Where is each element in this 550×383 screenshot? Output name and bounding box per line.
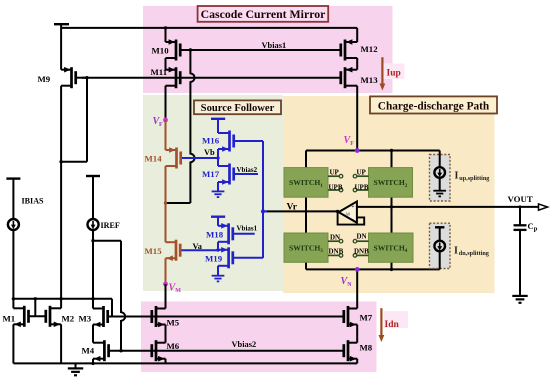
supply T IBIAS (6, 177, 20, 179)
wire M17 gate stub Vbias2 (235, 173, 259, 175)
terminal DN left (328, 240, 339, 242)
svg-text:Vbias2: Vbias2 (237, 166, 258, 174)
switch SWITCH3 (284, 233, 328, 262)
svg-text:DNB: DNB (329, 248, 344, 256)
wire M17 source to ground (217, 182, 219, 191)
wire VN rail (306, 268, 440, 270)
svg-text:VOUT: VOUT (508, 194, 533, 204)
node M4 source at rail (91, 362, 94, 365)
svg-text:Vb: Vb (204, 148, 215, 157)
transistor M19 (218, 247, 233, 268)
svg-text:+: + (352, 204, 355, 210)
wire horizontal to brown spine (166, 202, 191, 204)
wire top rail VDD (61, 27, 357, 29)
title box Source Follower (194, 100, 281, 114)
transistor M15 (166, 240, 181, 261)
svg-text:dn,splitting: dn,splitting (459, 250, 490, 257)
transistor M10 (166, 39, 181, 60)
region: source follower (green) (143, 95, 283, 291)
wire op-amp positive input to VOUT rail (357, 206, 539, 208)
svg-text:M14: M14 (145, 154, 163, 164)
current arrow Iup (381, 57, 383, 84)
terminal DNB right (357, 254, 369, 256)
wire M6 source to ground rail (165, 359, 167, 364)
terminal UPB left (328, 189, 339, 191)
svg-text:UPB: UPB (329, 183, 343, 191)
svg-text:M8: M8 (360, 343, 373, 353)
switch SWITCH1 (284, 168, 328, 198)
wire IBIAS to mirror rail (12, 230, 14, 299)
svg-text:Vbias1: Vbias1 (262, 41, 287, 50)
svg-text:M3: M3 (79, 314, 92, 324)
wire brown spine M15 to VM (165, 258, 167, 284)
svg-text:IREF: IREF (101, 221, 120, 230)
current source Iup,splitting (434, 167, 445, 178)
supply T top-left (54, 23, 69, 25)
transistor M2 (46, 306, 61, 327)
svg-text:M12: M12 (361, 44, 379, 54)
wire M19 source to ground (217, 266, 219, 276)
node rail M1/M2 gates (34, 297, 37, 300)
transistor M9 (61, 67, 76, 88)
label patch Iup (383, 64, 405, 80)
terminal DN right (357, 240, 369, 242)
ground Iup box (433, 191, 446, 197)
wire spine VM to M5 (165, 284, 167, 309)
node at Vbias2 (119, 349, 122, 352)
svg-text:C: C (528, 222, 534, 231)
ground symbol main (75, 363, 77, 368)
wire Vb from M14 gate (182, 157, 218, 159)
node IREF branch (91, 239, 94, 242)
label patch Idn (384, 311, 409, 328)
ground Cp (512, 296, 527, 303)
wire M4 source to ground rail (92, 359, 94, 364)
svg-text:Cascode Current Mirror: Cascode Current Mirror (201, 7, 326, 21)
switch SWITCH4 (369, 233, 414, 262)
wire M18 source to M19 drain (217, 242, 219, 250)
svg-text:UP: UP (330, 168, 340, 176)
transistor M6 (152, 340, 166, 361)
svg-text:M17: M17 (202, 169, 220, 179)
svg-text:Vbias2: Vbias2 (232, 340, 257, 349)
transistor M16 (218, 131, 234, 152)
region: bottom mirror (pink) (141, 302, 377, 373)
splitting box Idn (430, 223, 451, 268)
svg-text:A0: A0 (344, 211, 351, 216)
transistor M12 (341, 39, 357, 60)
node Va junction (216, 248, 219, 251)
svg-text:2: 2 (405, 183, 408, 189)
wire spine M10 source to rail (165, 28, 167, 42)
current source IREF (88, 219, 99, 230)
wire Iup source to ground (439, 178, 441, 191)
node M9 gate junction (85, 76, 88, 79)
wire M18 gate stub Vbias1 (234, 233, 255, 235)
wire VF rail into Iup source (439, 151, 441, 168)
node Vb junction (216, 156, 219, 159)
svg-text:M7: M7 (360, 313, 373, 323)
transistor M11 (166, 67, 181, 88)
wire VF rail (306, 150, 440, 152)
node op-amp output junction (336, 210, 339, 213)
wire Vr from follower to op-amp output (266, 210, 338, 212)
svg-text:M10: M10 (152, 45, 170, 55)
svg-text:M9: M9 (38, 74, 51, 84)
splitting box Iup (430, 155, 451, 202)
capacitor Cp (519, 207, 521, 225)
wire IREF branch to M4 gate (93, 240, 121, 242)
svg-text:3: 3 (320, 248, 323, 254)
node junction brown spine (164, 201, 167, 204)
title box Charge-discharge Path (370, 96, 497, 113)
node rail M2 drain (59, 297, 62, 300)
transistor M4 (93, 340, 109, 361)
svg-text:M: M (175, 288, 181, 294)
svg-text:-: - (352, 217, 354, 223)
supply T IREF (86, 175, 100, 177)
current arrow Idn (380, 308, 382, 335)
svg-text:M2: M2 (62, 313, 75, 323)
transistor M5 (152, 306, 166, 327)
transistor M1 (13, 306, 28, 327)
svg-text:Source Follower: Source Follower (201, 103, 275, 114)
supply T for M16 (211, 118, 225, 120)
node VF right (355, 148, 360, 153)
svg-text:SWITCH: SWITCH (289, 178, 320, 187)
wire spine M11 drain down to node VF (165, 86, 167, 120)
transistor M3 (93, 306, 108, 327)
region: charge-discharge path (tan) (283, 96, 495, 293)
svg-text:Vbias1: Vbias1 (237, 224, 258, 232)
wire M5 source to M6 drain (165, 325, 167, 343)
node Cp junction (519, 205, 522, 208)
wire brown spine VF to M14 (165, 120, 167, 150)
svg-text:Charge-discharge Path: Charge-discharge Path (378, 100, 490, 112)
supply T in Idn box (435, 226, 444, 228)
node Vr blue junction top (261, 209, 265, 213)
node Vbias1 junction (189, 48, 192, 51)
supply T for M18 (211, 215, 225, 217)
current source Idn,splitting (434, 241, 445, 252)
wire ground rail (13, 362, 357, 364)
wire left switch column (305, 151, 307, 168)
svg-text:up,splitting: up,splitting (459, 175, 490, 182)
svg-text:SWITCH: SWITCH (289, 244, 320, 253)
svg-text:p: p (534, 226, 538, 233)
transistor M8 (344, 340, 357, 361)
svg-text:M6: M6 (167, 341, 180, 351)
wire spine M10 drain to M11 source (165, 58, 167, 70)
transistor M7 (344, 306, 357, 327)
wire vertical to Vbias2 (hop over gate wire) (120, 241, 122, 313)
wire M1-M2 gate link (29, 315, 46, 317)
node VM (163, 282, 168, 287)
wire gate net M3-M5-M7 (hop at IREF vertical) (108, 316, 344, 318)
wire right switch column (391, 151, 393, 168)
node junction top rail / M10 source (164, 26, 167, 29)
transistor M14 (166, 147, 181, 168)
ground M17 (212, 191, 225, 197)
svg-text:IBIAS: IBIAS (22, 197, 45, 206)
svg-text:N: N (347, 282, 352, 288)
svg-text:4: 4 (405, 248, 408, 254)
title box Cascode Current Mirror (198, 6, 329, 22)
svg-text:Va: Va (193, 242, 203, 251)
wire M2 drain from rail (60, 299, 62, 309)
wire M2 source to ground rail (60, 324, 62, 363)
wire M9 gate loop vertical (86, 78, 88, 162)
svg-text:M19: M19 (205, 254, 223, 264)
node VN rail / switch4 junction (390, 268, 393, 271)
wire M1 drain from rail (12, 299, 14, 309)
terminal UP right (357, 175, 369, 177)
svg-text:I: I (454, 246, 458, 257)
svg-text:M1: M1 (3, 313, 16, 323)
svg-text:DN: DN (330, 233, 340, 241)
wire Va from M15 gate (182, 249, 219, 251)
ground M19 (212, 276, 225, 282)
wire M9 gate loop horizontal (61, 161, 87, 163)
wire spine M12-M13 (356, 58, 358, 70)
svg-text:M15: M15 (145, 246, 163, 256)
wire spine M12 source to rail (356, 28, 358, 42)
terminal DNB left (328, 254, 339, 256)
svg-text:M5: M5 (167, 318, 180, 328)
svg-text:UP: UP (357, 168, 367, 176)
wire M9 source from rail (60, 28, 62, 70)
output port arrow (539, 204, 548, 210)
switch SWITCH2 (369, 168, 413, 198)
svg-text:M4: M4 (82, 346, 95, 356)
transistor M17 (218, 164, 234, 185)
wire M13 drain to node VF (356, 86, 358, 151)
node Vr blue junction (261, 210, 264, 213)
wire M9 drain down to mirror rail (60, 86, 62, 299)
svg-text:DNB: DNB (354, 248, 369, 256)
node rail IREF (91, 297, 94, 300)
wire M7 source to M8 drain (356, 325, 358, 343)
svg-text:M13: M13 (361, 75, 379, 85)
svg-text:Iup: Iup (387, 69, 401, 79)
node VOUT rail switch junction (390, 205, 393, 208)
wire M9 gate to diode loop (76, 77, 87, 79)
svg-text:Vr: Vr (287, 202, 298, 213)
wire M3 source to M4 drain (92, 325, 94, 343)
wire Vbias2 net M4-M6-M8 (109, 350, 344, 352)
svg-text:I: I (455, 171, 459, 182)
wire blue vertical M16 gate - Vr - M19 gate (262, 141, 264, 258)
svg-text:M18: M18 (206, 230, 224, 240)
node VN (355, 267, 360, 272)
wire M19 gate to Vr (234, 257, 263, 259)
wire IREF down to M3 (92, 230, 94, 309)
svg-text:SWITCH: SWITCH (374, 244, 405, 253)
terminal UP left (328, 175, 339, 177)
svg-text:1: 1 (320, 183, 323, 189)
wire Vbias1 gate wire M10-M12 (180, 49, 341, 51)
node VF rail / switch2 junction (390, 149, 393, 152)
wire vertical M10 gate to M14 drain (with hops) (189, 50, 191, 74)
op-amp U1 buffer (339, 202, 357, 223)
svg-text:SWITCH: SWITCH (374, 178, 405, 187)
wire rail corner down to M3 gate wire (111, 299, 113, 317)
wire M8 source to ground rail (356, 359, 358, 364)
wire op-amp feedback loop (338, 212, 365, 225)
svg-text:F: F (159, 122, 163, 128)
current source IBIAS (8, 219, 19, 230)
node rail M1 drain (12, 297, 15, 300)
svg-text:F: F (350, 141, 354, 147)
wire brown spine M14 to M15 (165, 166, 167, 242)
wire M11 gate wire to M13 (82, 77, 341, 79)
wire M1 source to ground rail (12, 324, 14, 363)
svg-text:DN: DN (357, 233, 367, 241)
svg-text:Idn: Idn (385, 320, 400, 330)
svg-text:M16: M16 (202, 136, 220, 146)
wire VN down to M7 (356, 269, 358, 308)
region: cascode current mirror (pink) (143, 6, 393, 93)
transistor M13 (341, 67, 357, 88)
wire M16 gate to right (235, 140, 264, 142)
svg-text:UPB: UPB (355, 183, 369, 191)
node VF left (163, 118, 168, 123)
wire mirror gate rail (13, 298, 112, 300)
terminal UPB right (357, 189, 369, 191)
wire M16 source to M17 drain (217, 149, 219, 166)
transistor M18 (218, 223, 233, 244)
node M9 drain loop junction (59, 160, 62, 163)
wire Idn source to VN rail (439, 251, 441, 269)
